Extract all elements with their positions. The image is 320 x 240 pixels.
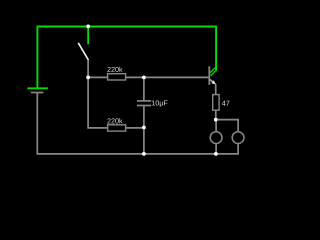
wire: lamp 1 bottom stub <box>215 143 217 154</box>
label 220k R2 <box>107 118 122 123</box>
wire: right vertical down to transistor collector (green) <box>215 26 217 70</box>
node: junction bottom wire / lamps <box>214 152 218 156</box>
wire: switch bottom down left rail <box>87 60 89 129</box>
battery V1 positive plate (green) <box>27 87 48 89</box>
wire: battery - down <box>36 93 38 155</box>
switch S1 lever (open, white) <box>78 43 88 60</box>
resistor R1 220k left lead <box>87 76 108 78</box>
resistor R1 220k right lead to transistor base <box>126 76 209 78</box>
wire: junction to lamp 1 top <box>215 120 217 132</box>
wire: bottom right return <box>216 153 239 155</box>
resistor R1 220k body <box>108 74 126 80</box>
node: junction base wire / cap <box>142 76 146 80</box>
transistor Q1 emitter lead <box>210 79 215 84</box>
wire: junction to right lamp branch (top) <box>216 119 239 121</box>
label 220k R1 <box>107 67 122 72</box>
lamp L1 circle <box>210 132 222 144</box>
capacitor C1 top plate <box>137 100 151 102</box>
wire: top horizontal (green) <box>37 26 218 28</box>
capacitor C1 bottom lead <box>143 106 145 154</box>
resistor R2 220k right lead <box>126 127 145 129</box>
transistor Q1 emitter arrow <box>211 80 215 84</box>
node: junction left rail / R1 <box>86 76 90 80</box>
capacitor C1 top lead <box>143 77 145 101</box>
wire: stub from top wire down to switch contact (green) <box>87 26 89 44</box>
resistor R2 220k left lead <box>87 127 108 129</box>
wire: battery + to top-left corner (green, highlighted net) <box>36 26 38 89</box>
lamp L2 circle <box>232 132 244 144</box>
label 47 R3 <box>222 101 229 106</box>
wire: bottom horizontal <box>37 153 217 155</box>
wire: lamp 2 bottom stub <box>237 143 239 154</box>
wire: emitter to R3 <box>215 84 217 95</box>
label 10uF C1 <box>152 100 168 107</box>
transistor Q1 base bar <box>208 66 210 85</box>
resistor R2 220k body <box>108 125 126 131</box>
resistor R3 47 body <box>213 95 219 111</box>
wire: R3 bottom to lamp junction <box>215 110 217 120</box>
battery V1 negative plate (gray) <box>31 92 44 94</box>
node: junction R3 / lamps <box>214 118 218 122</box>
capacitor C1 bottom plate <box>137 105 151 107</box>
node: junction cap bottom / R2 <box>142 126 146 130</box>
node: junction bottom wire / cap branch <box>142 152 146 156</box>
transistor Q1 collector lead (green double diagonal) <box>210 67 216 73</box>
wire: right branch down to lamp 2 <box>237 120 239 132</box>
node: junction top wire / switch <box>86 25 90 29</box>
